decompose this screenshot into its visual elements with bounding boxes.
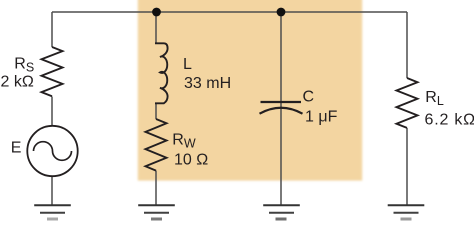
svg-text:10 Ω: 10 Ω [174,152,208,169]
svg-text:L: L [183,56,192,73]
svg-text:E: E [11,140,22,157]
svg-text:2 kΩ: 2 kΩ [1,74,34,91]
svg-text:33 mH: 33 mH [184,75,231,92]
svg-text:6.2 kΩ: 6.2 kΩ [425,112,474,129]
svg-text:C: C [303,89,315,106]
svg-text:1 μF: 1 μF [305,109,338,126]
